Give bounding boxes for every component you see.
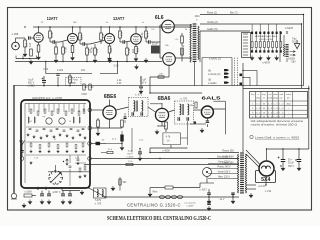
IF T4 winding 2: [142, 101, 143, 112]
capacitor C6 electrolytic 25uF: [151, 46, 160, 54]
wire sec bottom: [246, 184, 256, 186]
wire psu bus giallo: [91, 158, 239, 160]
terminal strip resistors: [251, 42, 253, 48]
capacitor C11 8uF: [138, 152, 142, 154]
tube V7 6AL5: [201, 106, 213, 118]
svg-text:Giallo (5): Giallo (5): [207, 27, 218, 31]
wire C12 gnd: [282, 162, 284, 167]
switch box Int Fono Magn: [66, 78, 82, 86]
svg-text:n.1500 n.1500: n.1500 n.1500: [259, 39, 274, 41]
wire drop c: [117, 62, 119, 74]
ground B2: [47, 200, 51, 205]
svg-text:watt: watt: [280, 93, 284, 96]
svg-text:Rosso 350: Rosso 350: [222, 150, 234, 153]
svg-text:usc.: usc.: [280, 97, 284, 99]
transformer T1 primary winding: [190, 24, 191, 62]
power transformer T2 core: [240, 153, 244, 193]
svg-text:14500/: 14500/: [288, 59, 295, 61]
circled note: [250, 135, 253, 138]
wire mid 135: [121, 131, 123, 135]
wire V3 plate to T1: [174, 24, 192, 26]
svg-text:a 1a piastra: a 1a piastra: [184, 202, 196, 205]
resistor R9: [86, 48, 89, 55]
power T2 primary: [237, 154, 238, 193]
svg-text:6BA6: 6BA6: [158, 96, 171, 102]
svg-text:0.5M: 0.5M: [81, 93, 86, 96]
wire block outline: [202, 58, 232, 86]
wire sec to 5X4 top: [246, 150, 260, 164]
ground C13: [297, 166, 301, 171]
resistor R20 below V5: [97, 120, 100, 127]
svg-text:1M: 1M: [25, 43, 29, 47]
wire grid V1b: [60, 40, 67, 42]
switch S1: [119, 177, 121, 191]
resistor R7 cathode V1b: [71, 46, 74, 53]
ground bracket: [16, 58, 37, 60]
antenna cap: [20, 151, 23, 153]
svg-text:Rete: Rete: [153, 191, 159, 194]
svg-text:Tipo: Tipo: [292, 39, 297, 41]
tuner internals: [25, 103, 86, 105]
ground mid 3: [135, 65, 139, 70]
ground tuner bottom: [80, 190, 84, 195]
ground C11: [138, 156, 142, 161]
arrows block: [224, 69, 229, 71]
svg-text:altop.: altop.: [256, 96, 261, 99]
svg-text:a 6AV6: a 6AV6: [285, 27, 294, 30]
wire V4 plate to T1: [175, 57, 192, 59]
resistor R23 below 6AL5: [195, 102, 197, 108]
resistor R21: [121, 120, 124, 127]
svg-text:6L6: 6L6: [155, 15, 164, 21]
wire dash vert 2: [236, 58, 238, 86]
wire B+ horizontal: [267, 148, 309, 150]
svg-text:1044: 1044: [194, 16, 200, 18]
svg-text:muniti di trasfor. di linea 25: muniti di trasfor. di linea 250 Ω: [251, 122, 298, 126]
svg-text:n.368: n.368: [12, 32, 19, 36]
ground B1: [40, 200, 44, 205]
svg-text:a Verde (2): a Verde (2): [208, 73, 221, 76]
connector block left: [242, 33, 251, 58]
mains plug: [11, 193, 16, 198]
wire T1 center tap: [194, 62, 196, 86]
transformer T1 secondary winding: [198, 26, 199, 60]
svg-text:2 W: 2 W: [117, 82, 122, 85]
tube V5 6BE6: [103, 106, 116, 119]
svg-text:0.25: 0.25: [114, 65, 119, 68]
IF T5 winding 1: [180, 104, 181, 115]
capacitor C18 6BE6-IF1: [124, 117, 127, 119]
ground V6 1: [155, 130, 159, 135]
transformer T3 line core: [285, 45, 288, 57]
wire V5 down: [109, 119, 111, 128]
svg-text:n.4006: n.4006: [127, 157, 134, 159]
voltage selector: [203, 168, 212, 177]
terminal circle box 110: [88, 108, 92, 112]
IF transformer T5 box: [175, 101, 194, 124]
svg-text:n.4078: n.4078: [262, 61, 270, 65]
arrow S1: [111, 186, 115, 191]
terminal circle box right 2: [88, 157, 92, 161]
tube V1b 12AT7: [68, 34, 78, 44]
svg-text:25 μF: 25 μF: [152, 43, 159, 46]
microphone input jack J1: [12, 42, 20, 50]
svg-text:Rosso 140 V: Rosso 140 V: [217, 167, 231, 169]
arrow to speaker 1: [290, 51, 296, 53]
svg-text:Pos: Pos: [251, 94, 254, 96]
resistor R11: [100, 33, 103, 40]
svg-text:50 +: 50 +: [288, 160, 293, 162]
wire detector box: [163, 121, 188, 145]
capacitor C2 coupling: [53, 40, 55, 43]
svg-text:470k: 470k: [90, 46, 94, 52]
svg-text:n. 971: n. 971: [135, 93, 143, 97]
terminal sq 2: [240, 83, 243, 86]
resistor R6: [62, 47, 65, 54]
terminal sq 6AL5: [194, 122, 196, 124]
svg-text:Bianco 110 V: Bianco 110 V: [217, 157, 231, 159]
resistor R25 50: [96, 142, 101, 145]
resistor R12 cathode V2a: [108, 46, 111, 53]
svg-text:Verde (2): Verde (2): [207, 20, 218, 24]
svg-text:a Giallo: a Giallo: [208, 82, 217, 85]
svg-text:a 6.3V: a 6.3V: [259, 185, 266, 188]
wire tone horiz: [46, 73, 92, 75]
svg-text:6AT6 6AV6 6AT6 6AV6: 6AT6 6AV6 6AT6 6AV6: [255, 35, 278, 38]
ground V2a cathode: [108, 56, 112, 61]
tube V3 6L6 upper: [162, 20, 175, 33]
svg-text:Gli altoparlanti devono essere: Gli altoparlanti devono essere: [251, 119, 304, 123]
ground C14: [207, 199, 211, 204]
wire 6BA6 grid top: [161, 104, 163, 109]
svg-text:50 μF: 50 μF: [288, 163, 295, 165]
resistor R26 6L6 cathode: [158, 76, 164, 78]
terminal sq 1: [240, 74, 243, 77]
ground C2: [68, 200, 72, 205]
svg-text:470k: 470k: [64, 46, 68, 52]
svg-text:0.022: 0.022: [57, 69, 64, 72]
wire V1a plate: [38, 27, 40, 32]
svg-text:v 1.5k: v 1.5k: [265, 190, 272, 193]
svg-text:GRUPPO A.F. n. 2478: GRUPPO A.F. n. 2478: [32, 96, 62, 100]
IF osc box n.970: [94, 188, 107, 198]
terminal strip grounds: [250, 56, 254, 61]
wire grid V4: [159, 42, 161, 58]
5X4 filament marks: [262, 166, 271, 169]
resistor R24 22k: [107, 151, 113, 153]
terminal strip row 2: [251, 50, 253, 52]
IF T5 winding 2: [188, 104, 189, 115]
twisted pair filament: [159, 195, 183, 199]
wire line giallo: [200, 30, 250, 32]
svg-text:n.4006: n.4006: [162, 150, 170, 153]
svg-text:1k8: 1k8: [109, 47, 113, 52]
wire tuner out: [92, 109, 104, 111]
wire T1 sec down: [199, 31, 201, 62]
resistor R8: [79, 33, 82, 40]
wire verde down right: [301, 24, 303, 89]
tube V2a 12AT7: [105, 34, 115, 44]
IF T4 trimmers: [132, 112, 134, 115]
svg-text:220k: 220k: [80, 33, 84, 39]
svg-text:Magn.: Magn.: [70, 83, 77, 85]
capacitor C12 filter 50uF: [281, 160, 286, 162]
resistor R3 cathode: [37, 45, 40, 52]
svg-text:Blu (7): Blu (7): [230, 11, 238, 15]
wire right bus down: [242, 63, 244, 152]
svg-text:n.4009: n.4009: [187, 206, 194, 208]
wire V6 down: [161, 122, 163, 126]
svg-text:3k3: 3k3: [136, 47, 140, 52]
component group C: [61, 194, 65, 196]
antenna: [20, 140, 25, 145]
resistor R19 tone: [69, 76, 72, 83]
svg-text:12AT7: 12AT7: [47, 16, 58, 21]
wire dial horiz: [48, 171, 90, 173]
ground R5: [54, 58, 58, 63]
resistor R4 plate load: [49, 31, 52, 38]
wire 5X4 cathode up: [266, 149, 268, 161]
svg-text:4.7k: 4.7k: [166, 136, 171, 139]
svg-text:1.5k: 1.5k: [34, 158, 38, 160]
svg-text:50 Ω: 50 Ω: [292, 42, 297, 44]
terminal circle box 128: [88, 126, 92, 130]
ground mid 2: [144, 58, 148, 63]
tube V2b 12AT7: [131, 34, 142, 45]
svg-text:n al: n al: [268, 94, 272, 96]
svg-text:100k: 100k: [50, 31, 54, 37]
trimmer arrows top: [66, 159, 68, 165]
wire 5X4 heater: [265, 175, 267, 185]
wire 6L6 cath drop: [168, 65, 170, 77]
tube V8 5X4: [259, 161, 274, 176]
wire psu bus g2: [84, 164, 239, 166]
transformer T1 core: [193, 24, 197, 61]
svg-text:45Ω: 45Ω: [287, 103, 291, 105]
tube V1a 12AT7: [34, 33, 43, 42]
wire det down: [170, 145, 172, 148]
ground C12: [281, 166, 285, 171]
capacitor C15 bottom: [231, 193, 235, 195]
junction dots: [24, 26, 25, 27]
resistor R5: [55, 47, 58, 54]
wire grid V3: [154, 41, 160, 43]
capacitor C3 coupling: [83, 42, 85, 45]
ground R10: [93, 58, 97, 63]
power T2 taps: [208, 158, 238, 160]
arrow to speaker 2: [290, 54, 296, 56]
svg-text:10 - 15: 10 - 15: [255, 112, 262, 114]
wire dash vert 1: [234, 58, 236, 86]
component group B: [40, 194, 44, 196]
wire 243 branch 1: [243, 70, 257, 72]
terminal strip top stubs: [251, 24, 253, 32]
svg-text:a 6AV6 (2): a 6AV6 (2): [209, 58, 221, 61]
resistor R15 cathode V2b: [135, 47, 138, 54]
wire mid 93 left: [150, 92, 202, 94]
wire drop 0.22: [45, 62, 47, 74]
wire V2a plate: [109, 27, 111, 33]
ground C17: [120, 146, 124, 151]
svg-text:imp.: imp.: [262, 94, 266, 96]
wire psu bus rosso: [150, 152, 239, 154]
wire V2b plate: [135, 27, 137, 34]
tuning gang VC1: [49, 171, 63, 185]
ground V2b cathode: [134, 57, 138, 62]
ground bracket arrow: [29, 60, 33, 65]
svg-text:5.979: 5.979: [95, 200, 101, 202]
svg-text:8 μF: 8 μF: [128, 151, 133, 153]
terminal circle box right 1: [88, 142, 92, 146]
ground C9: [139, 89, 143, 94]
ground C15: [231, 199, 235, 204]
capacitor C17 electrolytic: [120, 135, 123, 142]
tube V4 6L6 lower: [163, 53, 176, 66]
svg-text:Linea Giall. e screm. n. 4093: Linea Giall. e screm. n. 4093: [255, 136, 300, 139]
capacitor C4 coupling: [123, 40, 125, 43]
potentiometer P2: [89, 84, 91, 90]
wire 6BE6 to IF1: [116, 107, 128, 110]
ground R1: [23, 52, 27, 57]
svg-text:350 V: 350 V: [127, 154, 133, 156]
capacitor C16 right: [207, 203, 211, 205]
svg-text:Int. Fono: Int. Fono: [69, 79, 79, 82]
svg-text:Verde 160 V: Verde 160 V: [218, 171, 231, 174]
svg-text:SCHEMA ELETTRICO DEL CENTRALIN: SCHEMA ELETTRICO DEL CENTRALINO G.1520-C: [107, 215, 211, 222]
wire long bus below: [105, 196, 239, 198]
ground V1b cathode: [71, 56, 75, 61]
terminal strip row 1: [251, 32, 253, 34]
svg-text:n. 4017: n. 4017: [199, 190, 207, 192]
resistor R1 1M: [24, 40, 27, 47]
wire V5 top: [109, 100, 111, 106]
tube V6 6BA6: [155, 108, 168, 121]
IF T4 winding 1: [134, 101, 135, 112]
wire grid V2a: [90, 41, 104, 45]
resistor R13: [119, 31, 122, 38]
5X4 name box: [256, 171, 276, 183]
terminal strip wires: [251, 34, 253, 42]
resistor R2 grid: [30, 49, 33, 56]
ground C1: [61, 200, 65, 205]
svg-text:osc: osc: [42, 116, 45, 118]
wire dial vert: [55, 165, 57, 171]
capacitor C1: [29, 36, 31, 39]
svg-text:5 - 10: 5 - 10: [256, 108, 262, 110]
wire line rosa: [200, 14, 304, 16]
wire mid bus: [14, 85, 304, 87]
svg-text:1k2: 1k2: [131, 48, 135, 53]
capacitor C10: [206, 121, 209, 123]
wire mid bus2 right: [243, 88, 309, 90]
ground mid 1: [108, 58, 112, 63]
resistor R17 screen chain: [181, 36, 184, 43]
potentiometer P1: [83, 84, 85, 90]
resistor R16: [145, 31, 148, 38]
ground 6AL5 1: [200, 128, 204, 133]
svg-text:n.1098: n.1098: [24, 192, 32, 194]
speaker LS1: [294, 40, 300, 49]
component group A: [24, 194, 32, 197]
wire strip to speaker: [283, 35, 285, 45]
transformer T3 windings: [284, 45, 285, 57]
svg-text:15 - 20: 15 - 20: [255, 116, 262, 118]
wire 243 branch 2: [243, 76, 250, 78]
svg-text:2.2k: 2.2k: [140, 32, 144, 38]
ground V1a cathode: [37, 55, 41, 60]
capacitor C7 tone: [56, 74, 59, 76]
wire B+ up: [308, 86, 310, 149]
svg-text:22k: 22k: [95, 48, 99, 53]
wire line verde: [200, 23, 302, 25]
antenna terminal: [20, 157, 24, 161]
svg-text:a 807 C: a 807 C: [53, 192, 61, 194]
svg-text:adegu.: adegu.: [272, 97, 279, 99]
svg-text:carico: carico: [286, 94, 292, 96]
wire box corner down: [89, 188, 105, 197]
resistor R18 bias: [181, 48, 184, 55]
ground A: [22, 203, 26, 208]
svg-text:12AT7: 12AT7: [113, 16, 125, 21]
svg-text:0.22: 0.22: [43, 68, 48, 71]
svg-text:47k: 47k: [120, 31, 124, 36]
svg-text:2.2k: 2.2k: [127, 48, 131, 54]
wire top anode bus: [33, 26, 192, 28]
IF transformer T4 box: [129, 98, 149, 117]
svg-text:6BE6: 6BE6: [104, 94, 117, 100]
svg-text:Nero 125 V: Nero 125 V: [218, 161, 230, 164]
resistor R22 below V6: [165, 122, 168, 129]
svg-text:n. 970: n. 970: [95, 204, 102, 206]
tuner box GRUPPO AF: [21, 100, 90, 188]
svg-text:350 V: 350 V: [288, 166, 294, 168]
ground R20: [96, 131, 100, 136]
svg-text:Rosa (1): Rosa (1): [207, 11, 217, 15]
svg-text:470: 470: [146, 32, 150, 37]
wire left vert: [13, 86, 15, 193]
svg-text:n.2852: n.2852: [27, 85, 35, 88]
svg-text:CENTRALINO G.1520-C: CENTRALINO G.1520-C: [127, 202, 181, 208]
wire 6AL5 plate loop: [213, 101, 225, 134]
wire V1b plate: [72, 27, 74, 33]
resistor R10: [94, 48, 97, 55]
wire preamp ground bus: [15, 61, 162, 63]
speaker table: [250, 92, 308, 119]
power T2 secondary: [245, 154, 246, 193]
mains fuse: [165, 186, 173, 189]
resistor R14: [126, 48, 129, 55]
svg-text:/150: /150: [291, 62, 296, 64]
svg-text:14 V: 14 V: [220, 199, 225, 201]
svg-text:Marr. 220 V: Marr. 220 V: [218, 176, 230, 179]
svg-text:per: per: [287, 97, 290, 99]
capacitor C5 coupling: [149, 40, 151, 43]
wire psu left drops: [149, 148, 151, 153]
svg-text:1M: 1M: [28, 43, 32, 47]
capacitor C13 filter: [297, 160, 302, 162]
wire right bus vertical: [303, 15, 305, 86]
ground T2: [249, 193, 253, 198]
capacitor C14 bottom: [207, 193, 211, 195]
svg-text:6AL5: 6AL5: [202, 95, 222, 100]
svg-text:n. 971: n. 971: [180, 97, 188, 101]
wire IF2 to 6AL5: [169, 110, 175, 112]
IF T5 trimmers: [178, 117, 180, 120]
